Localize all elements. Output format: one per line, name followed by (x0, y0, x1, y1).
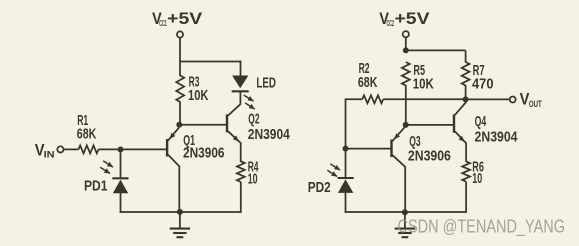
wire node E to VOUT (466, 98, 510, 100)
label VOUT (520, 89, 542, 109)
wire R2 to node E (383, 98, 465, 100)
net VCC1 label (152, 9, 203, 28)
terminal VCC1 (177, 31, 183, 37)
photodiode PD2 wire from node F (345, 149, 347, 177)
svg-text:10: 10 (472, 171, 482, 187)
label R7 value (472, 63, 494, 93)
wire node B to Q1 base (121, 148, 167, 150)
transistor Q2 body bar (226, 114, 228, 132)
bottom rail left circuit (120, 211, 242, 213)
Q2 collector diagonal (228, 104, 241, 115)
svg-text:Q2: Q2 (248, 111, 259, 127)
svg-text:2N3906: 2N3906 (183, 145, 225, 161)
wire R1 to node B (99, 148, 121, 150)
svg-text:10K: 10K (188, 88, 209, 104)
resistor R1 (79, 145, 99, 153)
wire node D to Q4 base (406, 124, 453, 126)
transistor Q4 body bar (453, 114, 455, 133)
Q4 emitter diagonal (455, 131, 466, 143)
wire LED to Q2 collector (239, 92, 241, 105)
photodiode PD2 triangle (338, 179, 353, 193)
ground junction dot right (402, 209, 408, 215)
label R4 value (248, 159, 259, 187)
label Q4 (475, 114, 519, 145)
svg-text:10K: 10K (413, 76, 434, 92)
wire R7 bottom (465, 85, 467, 99)
svg-text:+5V: +5V (167, 9, 203, 28)
wire R6 to rail (465, 182, 467, 213)
label PD1 (84, 178, 108, 194)
wire top branch to LED (179, 61, 241, 63)
wire Q4 emitter to R6 (465, 143, 467, 162)
resistor R7 (462, 62, 470, 86)
resistor R2 (362, 95, 383, 103)
photodiode PD1 wire from node B (120, 150, 122, 178)
label VIN (35, 140, 55, 159)
net VCC2 label (379, 9, 430, 28)
ground symbol left (170, 212, 190, 237)
wire Q2 emitter to R4 (240, 142, 242, 162)
node C junction (403, 47, 409, 53)
svg-text:470: 470 (472, 76, 494, 92)
svg-text:OUT: OUT (529, 99, 542, 109)
wire node A to Q2 base (179, 124, 226, 126)
wire R5 to node D (405, 85, 407, 125)
svg-text:PD1: PD1 (84, 178, 108, 194)
svg-text:LED: LED (256, 76, 276, 92)
PD2 light arrows (327, 164, 340, 177)
resistor R3 (176, 76, 184, 103)
svg-text:68K: 68K (77, 127, 97, 143)
label Q2 (248, 111, 291, 143)
wire VCC2 down (405, 37, 407, 50)
ground junction dot left (177, 209, 183, 215)
label Q3 (408, 134, 451, 165)
resistor R6 (462, 161, 470, 181)
svg-text:10: 10 (248, 171, 258, 187)
svg-text:Q4: Q4 (475, 114, 487, 130)
svg-text:CC2: CC2 (387, 18, 395, 28)
wire R4 to rail (240, 182, 242, 213)
label R3 value (188, 74, 209, 104)
ground symbol right (395, 212, 415, 237)
wire R2 corner down to node F (345, 99, 347, 149)
svg-text:2N3904: 2N3904 (248, 127, 291, 143)
node D junction (403, 122, 409, 128)
LED light arrows (244, 95, 255, 109)
svg-text:CC1: CC1 (159, 18, 167, 28)
terminal VCC2 (403, 31, 409, 37)
wire PD2 to rail (345, 193, 347, 213)
Q2 emitter diagonal (228, 131, 240, 142)
wire LED branch down (240, 61, 242, 76)
label R5 value (413, 63, 434, 93)
svg-text:PD2: PD2 (308, 180, 331, 196)
bottom rail right circuit (345, 211, 467, 213)
wire PD1 to rail (120, 193, 122, 213)
wire VIN to R1 (64, 148, 79, 150)
photodiode PD1 cathode bar (112, 177, 128, 179)
svg-text:2N3904: 2N3904 (475, 129, 519, 145)
node B junction (118, 147, 124, 153)
Q3 collector (392, 155, 405, 212)
transistor Q1 body bar (166, 139, 168, 157)
node E junction at R7 bottom (463, 96, 469, 102)
svg-text:68K: 68K (358, 75, 378, 91)
wire to R3 (179, 62, 181, 77)
label R6 value (472, 160, 484, 187)
LED cathode bar (232, 90, 249, 92)
label R2 value (358, 61, 378, 91)
wire node F to Q3 base (346, 148, 391, 150)
terminal VIN (57, 146, 63, 152)
label Q1 (183, 133, 225, 161)
node F junction (343, 146, 349, 152)
label LED (256, 76, 276, 92)
terminal VOUT (510, 97, 516, 103)
output wire with R2 (346, 98, 363, 100)
photodiode PD1 triangle (113, 180, 128, 194)
watermark text (398, 216, 566, 238)
label R1 value (77, 113, 97, 142)
Q3 emitter to node D (392, 127, 404, 141)
wire R3 to node A (179, 102, 181, 126)
resistor R5 (402, 62, 410, 86)
Q1 emitter to node A (168, 128, 179, 141)
photodiode PD2 cathode bar (338, 177, 354, 179)
wire VCC2 branch to R7 (406, 50, 466, 62)
svg-text:2N3906: 2N3906 (408, 149, 451, 165)
LED triangle (232, 76, 248, 89)
transistor Q3 body bar (390, 140, 392, 158)
PD1 light arrows (100, 161, 113, 174)
resistor R4 (237, 161, 245, 182)
svg-text:IN: IN (44, 149, 55, 159)
svg-text:CSDN @TENAND_YANG: CSDN @TENAND_YANG (398, 216, 566, 238)
node A junction (176, 122, 182, 128)
svg-text:+5V: +5V (395, 9, 431, 28)
wire Q4 collector to node E (455, 99, 466, 115)
wire VCC1 down (179, 38, 181, 63)
label PD2 (308, 180, 331, 196)
svg-text:Q3: Q3 (409, 134, 420, 150)
Q1 collector (168, 155, 179, 212)
